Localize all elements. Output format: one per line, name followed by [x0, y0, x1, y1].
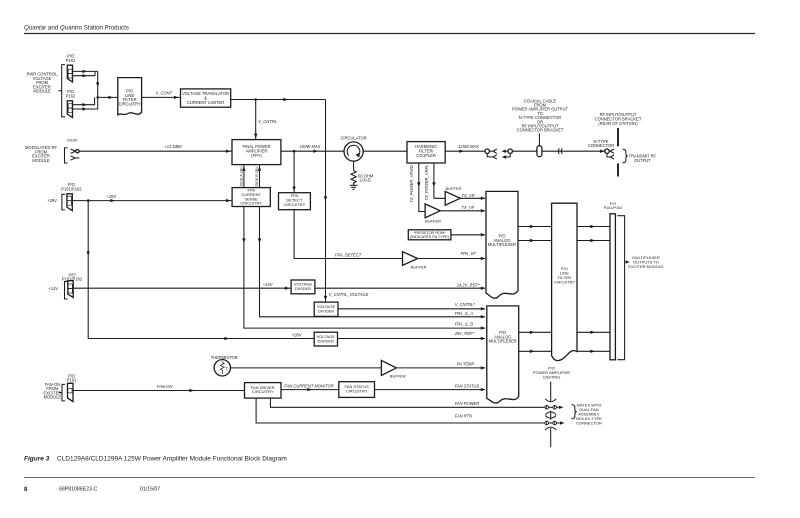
- svg-text:P/OP161: P/OP161: [66, 54, 76, 63]
- svg-text:68P81086E23-C: 68P81086E23-C: [59, 487, 98, 493]
- svg-text:P/OP161/P162: P/OP161/P162: [61, 182, 82, 191]
- svg-text:COAXIAL CABLEFROMPOWER AMPLIFI: COAXIAL CABLEFROMPOWER AMPLIFIER OUTPUTT…: [512, 98, 568, 132]
- svg-text:CLD129A8/CLD1299A 125W Power A: CLD129A8/CLD1299A 125W Power Amplifier M…: [57, 455, 287, 462]
- svg-text:P/OP161: P/OP161: [67, 373, 77, 382]
- svg-text:+13 DBM: +13 DBM: [164, 144, 182, 149]
- svg-text:N-TYPECONNECTOR: N-TYPECONNECTOR: [588, 139, 614, 148]
- svg-text:TX_VR: TX_VR: [462, 193, 475, 198]
- svg-text:P/OPOWER AMPLIFIERCASTING: P/OPOWER AMPLIFIERCASTING: [533, 365, 570, 379]
- svg-text:VOLTAGEDIVIDER: VOLTAGEDIVIDER: [317, 334, 336, 343]
- svg-text:P/OLINEFILTERCIRCUITRY: P/OLINEFILTERCIRCUITRY: [119, 89, 141, 107]
- svg-text:14.2V_REF*: 14.2V_REF*: [457, 283, 480, 288]
- svg-text:FINAL POWERAMPLIFIER(FPA): FINAL POWERAMPLIFIER(FPA): [242, 144, 270, 158]
- svg-text:VOLTAGEDIVIDER: VOLTAGEDIVIDER: [317, 304, 336, 313]
- svg-text:Quantar and Quantro Station Pr: Quantar and Quantro Station Products: [24, 24, 129, 31]
- svg-text:RF INPUT/OUTPUTCONNECTOR BRACK: RF INPUT/OUTPUTCONNECTOR BRACKET(REAR OF…: [595, 112, 642, 126]
- svg-text:FPA_VF: FPA_VF: [461, 251, 477, 256]
- svg-text:BUFFER: BUFFER: [425, 218, 441, 223]
- svg-text:+28V: +28V: [292, 332, 303, 337]
- svg-text:FAN CURRENT MONITOR: FAN CURRENT MONITOR: [284, 384, 333, 389]
- svg-text:FPADETECTCIRCUITRY: FPADETECTCIRCUITRY: [284, 193, 306, 207]
- svg-text:FAN STATUS: FAN STATUS: [455, 383, 480, 388]
- svg-text:FPA_DETECT: FPA_DETECT: [335, 252, 362, 257]
- svg-text:BUFFER: BUFFER: [411, 265, 427, 270]
- svg-text:28V_REF*: 28V_REF*: [454, 331, 475, 336]
- svg-text:P/OANALOGMULTIPLEXER: P/OANALOGMULTIPLEXER: [488, 234, 516, 248]
- svg-text:FPACURRENTSENSECIRCUITRY: FPACURRENTSENSECIRCUITRY: [240, 188, 262, 206]
- svg-text:FPA_I1_A: FPA_I1_A: [455, 311, 474, 316]
- svg-text:SIDE A 28V: SIDE A 28V: [239, 166, 243, 186]
- svg-text:VOLTAGE TRANSLATOR&CURRENT LIM: VOLTAGE TRANSLATOR&CURRENT LIMITER: [182, 91, 229, 105]
- svg-text:TX_POWER_VFWD: TX_POWER_VFWD: [409, 165, 414, 202]
- svg-text:FAN STATUSCIRCUITRY: FAN STATUSCIRCUITRY: [345, 384, 369, 393]
- svg-text:FPA_I1_B: FPA_I1_B: [455, 321, 474, 326]
- svg-text:HARMONICFILTER/COUPLER: HARMONICFILTER/COUPLER: [415, 144, 437, 158]
- svg-text:TX_VF: TX_VF: [462, 205, 475, 210]
- svg-text:FAN-ONFROMEXCITERMODULE: FAN-ONFROMEXCITERMODULE: [44, 382, 62, 400]
- svg-text:100W MAX: 100W MAX: [300, 144, 321, 149]
- svg-text:V_CNTRL: V_CNTRL: [258, 119, 277, 124]
- svg-text:FAN RTN: FAN RTN: [455, 414, 472, 419]
- svg-text:TX_POWER_VRFL: TX_POWER_VRFL: [424, 165, 429, 201]
- svg-text:V_CNTRL*: V_CNTRL*: [455, 302, 476, 307]
- svg-text:VOLTAGEDIVIDER: VOLTAGEDIVIDER: [294, 282, 313, 291]
- svg-text:V_CNTRL_VOLTAGE: V_CNTRL_VOLTAGE: [329, 292, 369, 297]
- svg-text:FAN-ON: FAN-ON: [157, 384, 172, 389]
- svg-text:01/15/07: 01/15/07: [140, 487, 160, 493]
- svg-text:J4100: J4100: [67, 138, 79, 143]
- svg-text:FAN DRIVERCIRCUITRY: FAN DRIVERCIRCUITRY: [251, 385, 275, 394]
- svg-text:BUFFER: BUFFER: [446, 186, 462, 191]
- svg-text:MATES WITHDUAL FANASSEMBLYMOLE: MATES WITHDUAL FANASSEMBLYMOLEX-TYPECONN…: [576, 402, 602, 425]
- svg-text:PWR CONTROLVOLTAGEFROMEXCITERM: PWR CONTROLVOLTAGEFROMEXCITERMODULE: [27, 72, 58, 94]
- svg-text:PA TEMP: PA TEMP: [457, 362, 475, 367]
- svg-text:Figure 3: Figure 3: [24, 455, 50, 462]
- svg-text:+14V: +14V: [48, 286, 58, 291]
- svg-text:BUFFER: BUFFER: [390, 374, 406, 379]
- svg-text:+28V: +28V: [47, 198, 57, 203]
- svg-text:SIDE B 28V: SIDE B 28V: [255, 166, 259, 187]
- svg-text:+14V: +14V: [263, 282, 274, 287]
- svg-text:*RESISTOR ROM*(INDICATES PA TY: *RESISTOR ROM*(INDICATES PA TYPE): [410, 231, 450, 239]
- svg-text:50 OHMLOAD: 50 OHMLOAD: [358, 173, 374, 182]
- svg-text:+28V: +28V: [106, 194, 117, 199]
- svg-text:FAN POWER: FAN POWER: [455, 401, 480, 406]
- svg-text:MODULATED RFFROMEXCITERMODULE: MODULATED RFFROMEXCITERMODULE: [25, 145, 57, 163]
- svg-text:8: 8: [24, 487, 28, 493]
- svg-text:CIRCULATOR: CIRCULATOR: [340, 135, 366, 140]
- svg-text:P/OLINEFILTERCIRCUITRY: P/OLINEFILTERCIRCUITRY: [553, 266, 575, 285]
- svg-text:125W MAX: 125W MAX: [458, 144, 479, 149]
- svg-text:P/OP162: P/OP162: [66, 89, 76, 98]
- svg-text:V_CONT: V_CONT: [156, 91, 173, 96]
- svg-text:OUTPUT: OUTPUT: [634, 158, 651, 163]
- svg-text:THERMISTOR: THERMISTOR: [211, 355, 238, 360]
- svg-text:MULTIPLEXEROUTPUTS TOEXCITER M: MULTIPLEXEROUTPUTS TOEXCITER MODULE: [628, 255, 664, 269]
- svg-text:P/OP161/P162: P/OP161/P162: [604, 202, 623, 210]
- svg-text:P/OANALOGMULTIPLEXER: P/OANALOGMULTIPLEXER: [489, 330, 517, 344]
